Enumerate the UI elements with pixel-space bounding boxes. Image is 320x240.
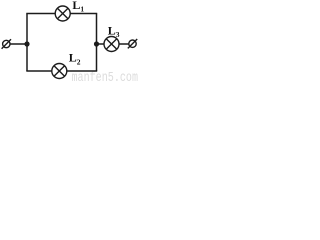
wire lamp L3 to right terminal	[119, 43, 129, 45]
terminal left	[2, 39, 11, 48]
wire right rail vertical	[96, 14, 98, 72]
svg-text:L2: L2	[69, 51, 81, 67]
wire top rail left	[26, 13, 55, 15]
wire bottom rail left	[26, 70, 52, 72]
wire left terminal to node A	[10, 43, 27, 45]
wire left rail vertical	[26, 14, 28, 72]
svg-text:manfen5.com: manfen5.com	[72, 71, 139, 82]
lamp L1	[55, 6, 70, 21]
wire top rail right	[70, 13, 97, 15]
node B junction dot	[94, 41, 99, 46]
svg-text:L3: L3	[108, 23, 120, 39]
node A junction dot	[24, 41, 29, 46]
terminal right	[128, 39, 137, 48]
svg-text:L1: L1	[72, 0, 84, 14]
lamp L3	[104, 37, 119, 52]
wire node B to lamp L3	[97, 43, 105, 45]
wire bottom rail right	[67, 70, 97, 72]
lamp L2	[52, 64, 67, 79]
